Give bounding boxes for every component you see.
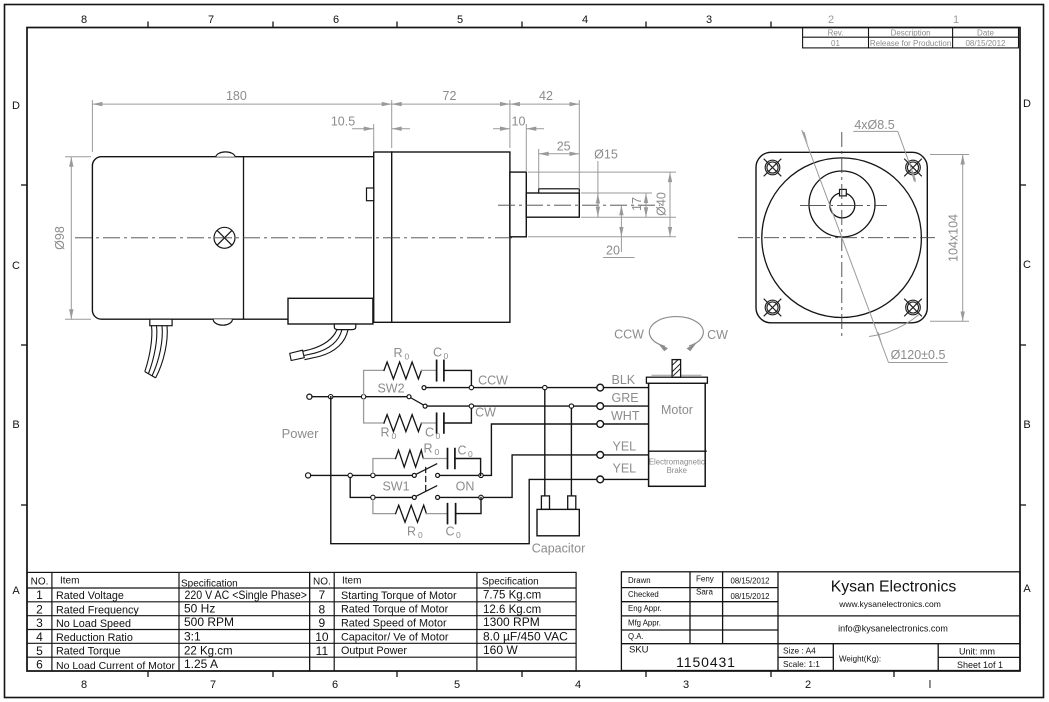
svg-text:Capacitor/ Ve of Motor: Capacitor/ Ve of Motor <box>341 631 449 643</box>
svg-text:Description: Description <box>891 29 931 38</box>
SW1 contact pole1 <box>436 473 440 477</box>
svg-text:6: 6 <box>332 679 338 691</box>
svg-text:42: 42 <box>539 89 553 103</box>
SW1 contact pole2 <box>436 495 440 499</box>
wire: CW line to motor GRE <box>427 405 597 407</box>
rotation arrowhead right <box>687 343 697 351</box>
Ø120 diameter leader line <box>802 130 948 363</box>
wire R0-C0 lower (gray) <box>426 513 447 515</box>
resistor R0 (lower, SW2) <box>384 415 422 432</box>
svg-text:NO.: NO. <box>313 577 331 588</box>
svg-text:2: 2 <box>828 14 834 26</box>
svg-text:CCW: CCW <box>614 328 644 342</box>
cable strands from box <box>290 330 348 361</box>
wire: contact1 to WHT drop <box>440 474 492 476</box>
motor terminal GRE <box>597 403 604 410</box>
label 20 underline <box>603 257 635 259</box>
svg-text:8.0 µF/450 VAC: 8.0 µF/450 VAC <box>483 629 568 643</box>
svg-text:B: B <box>1023 419 1030 431</box>
svg-text:WHT: WHT <box>611 409 640 423</box>
wire: capacitor lead 1 <box>544 390 546 496</box>
svg-text:9: 9 <box>319 616 326 630</box>
horizontal centerline <box>738 237 936 239</box>
node CCW/snubber <box>469 385 473 389</box>
SW1 mechanical link (dashed) <box>425 468 427 493</box>
pilot circle Ø120 <box>762 158 922 318</box>
svg-text:1.25 A: 1.25 A <box>184 657 218 671</box>
dim Ø15 leader <box>597 161 599 217</box>
svg-text:08/15/2012: 08/15/2012 <box>965 39 1006 48</box>
svg-text:0: 0 <box>392 431 397 441</box>
svg-text:Size : A4: Size : A4 <box>783 646 816 656</box>
svg-text:Rated Speed of Motor: Rated Speed of Motor <box>341 618 447 630</box>
svg-text:Ø120±0.5: Ø120±0.5 <box>891 348 946 362</box>
svg-text:C: C <box>445 525 454 539</box>
output shaft (Ø15) <box>526 193 579 217</box>
SW1 pivot pole2 <box>412 495 416 499</box>
main centerline <box>75 237 512 239</box>
svg-text:0: 0 <box>444 351 449 361</box>
shaft centerline short <box>800 204 887 206</box>
resistor R0 (lower, SW1) <box>396 505 427 522</box>
svg-text:160 W: 160 W <box>483 643 518 657</box>
svg-text:Rated Torque: Rated Torque <box>56 646 121 658</box>
vertical centerline <box>841 132 843 340</box>
svg-text:50 Hz: 50 Hz <box>184 602 215 616</box>
svg-text:BLK: BLK <box>612 373 636 387</box>
svg-text:Capacitor: Capacitor <box>532 542 586 556</box>
svg-text:72: 72 <box>443 89 457 103</box>
svg-text:8: 8 <box>319 603 326 617</box>
motor/brake divider <box>649 450 706 452</box>
svg-text:180: 180 <box>226 89 247 103</box>
svg-text:2: 2 <box>36 603 43 617</box>
svg-text:10: 10 <box>315 630 329 644</box>
svg-text:www.kysanelectronics.com: www.kysanelectronics.com <box>838 599 941 609</box>
wire: pole2 feed from J3 <box>350 478 412 498</box>
svg-text:A: A <box>12 585 20 597</box>
SW2 CW contact <box>423 404 427 408</box>
dim 10 extension + arrows <box>525 124 527 172</box>
wire R0 to C0 (gray) <box>422 369 437 371</box>
dim 180 extension lines <box>91 100 93 152</box>
svg-text:Item: Item <box>60 576 79 587</box>
svg-text:l: l <box>929 679 931 691</box>
SW2 pivot <box>407 395 411 399</box>
svg-text:Weight(Kg):: Weight(Kg): <box>839 655 881 664</box>
wires: terminals to motor <box>604 388 649 480</box>
node J6 <box>371 495 375 499</box>
SPECIFICATION TABLE LEFT <box>27 572 310 671</box>
svg-text:Sheet 1of 1: Sheet 1of 1 <box>957 660 1003 670</box>
capacitor C0 (upper, SW2) <box>437 360 444 380</box>
terminal box under body <box>288 298 373 324</box>
svg-text:20: 20 <box>606 244 620 258</box>
svg-text:3: 3 <box>706 14 712 26</box>
SPECIFICATION TABLE RIGHT <box>310 572 576 671</box>
dimension texts <box>53 89 669 258</box>
zone labels bottom <box>81 679 931 691</box>
svg-text:SW1: SW1 <box>382 479 409 493</box>
Ø120 leader arrowheads <box>802 131 808 144</box>
svg-text:4: 4 <box>36 630 43 644</box>
motor terminal BLK <box>597 384 604 391</box>
dim 25 <box>538 149 540 189</box>
svg-text:0: 0 <box>405 352 410 362</box>
svg-text:0: 0 <box>435 447 440 457</box>
svg-text:3: 3 <box>36 616 43 630</box>
svg-text:4: 4 <box>582 14 588 26</box>
svg-text:10.5: 10.5 <box>331 115 355 129</box>
svg-text:3:1: 3:1 <box>184 629 201 643</box>
svg-text:SKU: SKU <box>629 645 649 656</box>
svg-text:Mfg Appr.: Mfg Appr. <box>628 618 661 627</box>
gearbox housing <box>392 152 510 322</box>
power terminal L (top) <box>307 394 312 399</box>
svg-text:CW: CW <box>707 328 728 342</box>
svg-text:CW: CW <box>475 406 496 420</box>
svg-text:Rated Frequency: Rated Frequency <box>56 605 139 617</box>
svg-text:NO.: NO. <box>31 577 49 588</box>
resistor R0 (upper, SW2) <box>384 362 422 379</box>
resistor R0 (upper, SW1) <box>396 450 424 467</box>
TITLE BLOCK <box>621 572 1020 671</box>
dim 17 line <box>645 193 647 217</box>
output boss (Ø40) <box>510 172 526 237</box>
dim line 42 <box>510 103 579 105</box>
small tab on flange <box>367 188 374 201</box>
svg-text:D: D <box>12 100 20 112</box>
wire: capacitor lead 2 <box>570 408 572 496</box>
svg-text:Checked: Checked <box>628 590 659 599</box>
svg-text:0: 0 <box>468 449 473 459</box>
SW1 lever pole1 <box>416 464 437 475</box>
WIRING SCHEMATIC <box>282 317 729 556</box>
capacitor body <box>537 509 579 535</box>
SIDE VIEW of gear motor <box>75 152 660 378</box>
wire: C0 to J7 <box>456 497 481 513</box>
svg-text:Scale: 1:1: Scale: 1:1 <box>783 659 820 669</box>
rotation arrowhead left <box>658 344 668 352</box>
svg-text:104x104: 104x104 <box>946 214 960 262</box>
capacitor C0 (upper, SW1) <box>448 449 455 469</box>
svg-text:Rev.: Rev. <box>828 28 844 37</box>
dim 10.5 extension + arrows <box>373 124 375 152</box>
svg-text:2: 2 <box>805 679 811 691</box>
svg-text:0: 0 <box>436 431 441 441</box>
svg-text:C: C <box>433 346 442 360</box>
svg-text:08/15/2012: 08/15/2012 <box>730 592 769 601</box>
svg-text:No Load Current of Motor: No Load Current of Motor <box>56 660 175 672</box>
node CCW/capacitor <box>543 385 547 389</box>
bottom bump <box>213 319 232 325</box>
wire R0-C0 (gray) <box>423 458 447 460</box>
svg-text:Rated Voltage: Rated Voltage <box>56 590 124 602</box>
svg-text:Kysan Electronics: Kysan Electronics <box>831 579 957 596</box>
wire: contact2 to YEL1 riser <box>440 455 597 498</box>
shaft keyway <box>539 189 580 193</box>
svg-text:220 V AC <Single Phase>: 220 V AC <Single Phase> <box>185 588 308 602</box>
wire: YEL2 return loop <box>331 397 597 544</box>
motor terminal YEL1 <box>597 452 604 459</box>
svg-text:11: 11 <box>316 644 329 658</box>
wire: C0 to CCW line <box>444 370 472 387</box>
svg-text:SW2: SW2 <box>377 381 404 395</box>
104x104 dimension <box>930 155 969 322</box>
svg-text:Q.A.: Q.A. <box>628 632 644 641</box>
svg-text:5: 5 <box>36 644 43 658</box>
dim 17 extension lines <box>581 192 652 194</box>
svg-text:Rated Torque of Motor: Rated Torque of Motor <box>341 604 449 616</box>
svg-text:Specification: Specification <box>482 577 539 588</box>
cable strands left <box>145 326 167 378</box>
cable gland left <box>150 319 172 326</box>
4xØ8.5 label + leader <box>853 131 915 180</box>
svg-text:8: 8 <box>81 14 87 26</box>
bolt hole bottom-left <box>764 299 782 317</box>
svg-text:25: 25 <box>557 140 571 154</box>
bolt hole top-left <box>764 159 782 177</box>
wire: SW1 lower snubber lead (gray) <box>373 500 396 514</box>
bolt circle arc segment <box>869 315 919 337</box>
svg-text:R: R <box>423 442 432 456</box>
svg-text:YEL: YEL <box>613 440 637 454</box>
svg-text:4xØ8.5: 4xØ8.5 <box>854 118 894 132</box>
svg-text:A: A <box>1023 583 1031 595</box>
motor terminal YEL2 <box>597 476 604 483</box>
zone labels right <box>1023 98 1031 595</box>
bolt hole bottom-right <box>904 299 922 317</box>
svg-text:Output Power: Output Power <box>341 645 407 657</box>
SW2 lever <box>411 398 424 405</box>
svg-text:R: R <box>393 346 402 360</box>
svg-text:0: 0 <box>418 530 423 540</box>
svg-text:B: B <box>12 419 19 431</box>
wire: top power rail to SW2 pivot <box>312 396 407 398</box>
capacitor C0 (lower, SW1) <box>448 504 456 524</box>
flange plate <box>374 152 392 322</box>
svg-text:Ø40: Ø40 <box>655 192 669 216</box>
svg-text:7.75 Kg.cm: 7.75 Kg.cm <box>483 590 541 602</box>
svg-text:Ø98: Ø98 <box>53 226 67 250</box>
svg-text:1150431: 1150431 <box>676 654 736 670</box>
FRONT VIEW of motor flange <box>738 118 969 363</box>
svg-text:7: 7 <box>319 588 326 602</box>
svg-text:7: 7 <box>210 679 216 691</box>
shaft circle <box>830 193 855 218</box>
svg-text:8: 8 <box>81 679 87 691</box>
node CW/snubber <box>469 404 473 408</box>
dim Ø40 line <box>669 172 671 237</box>
svg-text:Feny: Feny <box>696 575 714 584</box>
capacitor C0 (lower, SW2) <box>437 413 444 433</box>
motor shaft (hatched) <box>672 359 681 377</box>
node J2 (snubber taps) <box>361 395 365 399</box>
wire: lower snubber lead (gray) <box>364 399 384 423</box>
capacitor terminal 2 <box>568 496 576 510</box>
node J3 <box>348 473 352 477</box>
wire R0 to C0 lower (gray) <box>422 422 437 424</box>
svg-text:R: R <box>380 426 389 440</box>
gearhead boss circle <box>809 171 875 237</box>
svg-text:No Load Speed: No Load Speed <box>56 618 131 630</box>
svg-text:1: 1 <box>953 14 959 26</box>
svg-text:Date: Date <box>977 29 994 38</box>
svg-text:Power: Power <box>282 426 320 441</box>
svg-text:3: 3 <box>683 679 689 691</box>
svg-text:5: 5 <box>457 14 463 26</box>
wire: C0 to CW line <box>444 406 472 423</box>
wire: bottom power rail to SW1 pivot <box>311 474 413 476</box>
node J1 (WHT/YEL2 return tap) <box>329 395 333 399</box>
dim line 180 <box>92 103 391 105</box>
svg-text:D: D <box>1023 98 1031 110</box>
motor body (side view, Ø98 section) <box>92 157 373 320</box>
svg-text:Item: Item <box>342 576 361 587</box>
side view dimensions <box>65 100 676 319</box>
vent plug symbol (circle with cross) <box>214 227 235 248</box>
svg-text:Reduction Ratio: Reduction Ratio <box>56 632 133 644</box>
rotation ellipse <box>649 317 703 347</box>
svg-text:Brake: Brake <box>667 466 687 475</box>
wire: CCW line to motor BLK <box>426 387 597 389</box>
svg-text:500 RPM: 500 RPM <box>184 615 234 629</box>
svg-text:0: 0 <box>456 530 461 540</box>
wire labels BLK GRE WHT YEL YEL <box>611 373 640 476</box>
svg-text:R: R <box>407 525 416 539</box>
svg-text:7: 7 <box>208 14 214 26</box>
svg-text:Motor: Motor <box>661 403 693 417</box>
node CW/capacitor <box>569 404 573 408</box>
dim 20 line <box>620 205 622 237</box>
SW1 pivot pole1 <box>412 473 416 477</box>
svg-text:CCW: CCW <box>478 374 508 388</box>
zone labels left <box>12 100 20 597</box>
svg-text:C: C <box>1023 259 1031 271</box>
svg-text:22 Kg.cm: 22 Kg.cm <box>184 646 233 658</box>
wire: SW1 upper snubber lead (gray) <box>373 459 396 474</box>
motor top plate <box>646 377 707 383</box>
svg-text:C: C <box>12 260 20 272</box>
wire: upper snubber lead (gray) <box>364 370 384 394</box>
svg-text:Eng Appr.: Eng Appr. <box>628 604 662 613</box>
cable gland on terminal box <box>334 324 356 330</box>
svg-text:ON: ON <box>456 479 475 493</box>
shaft centerline <box>498 204 660 206</box>
svg-text:17: 17 <box>630 197 644 211</box>
REVISION TABLE <box>803 28 1019 48</box>
motor terminal WHT <box>597 421 604 428</box>
svg-text:GRE: GRE <box>612 391 639 405</box>
svg-text:YEL: YEL <box>613 462 637 476</box>
svg-text:01: 01 <box>831 39 840 48</box>
SW2 CCW contact <box>422 386 426 390</box>
svg-text:Starting Torque of Motor: Starting Torque of Motor <box>341 590 457 602</box>
zone labels top <box>81 14 959 26</box>
capacitor terminal 1 <box>541 496 549 510</box>
svg-text:C: C <box>425 426 434 440</box>
wire: C0 to J5 <box>455 459 481 476</box>
dim Ø98 <box>65 156 91 158</box>
svg-text:Sara: Sara <box>696 588 713 597</box>
svg-text:6: 6 <box>36 658 43 672</box>
svg-text:6: 6 <box>333 14 339 26</box>
top bump (ring boss) <box>216 152 235 157</box>
node J4 <box>371 473 375 477</box>
svg-text:Unit: mm: Unit: mm <box>959 647 995 657</box>
dim line 72 <box>392 103 510 105</box>
svg-text:4: 4 <box>575 679 581 691</box>
body section divider <box>243 157 245 320</box>
svg-text:1300 RPM: 1300 RPM <box>483 615 540 629</box>
dim Ø40 extension lines <box>528 171 676 173</box>
svg-text:Release for Production: Release for Production <box>870 39 951 48</box>
svg-text:C: C <box>457 444 466 458</box>
wire: WHT line <box>491 424 596 475</box>
SW1 lever pole2 <box>416 486 437 497</box>
motor block <box>649 383 706 486</box>
svg-text:08/15/2012: 08/15/2012 <box>730 577 769 586</box>
key square <box>840 189 847 196</box>
node J5 (snubber) <box>479 473 483 477</box>
bolt hole top-right <box>904 159 922 177</box>
power terminal N (bottom) <box>306 473 311 478</box>
flange square <box>756 152 927 322</box>
svg-text:info@kysanelectronics.com: info@kysanelectronics.com <box>838 624 948 634</box>
node J7 (snubber) <box>479 495 483 499</box>
svg-text:10: 10 <box>512 115 526 129</box>
svg-text:Ø15: Ø15 <box>594 148 618 162</box>
svg-text:1: 1 <box>36 588 43 602</box>
svg-text:Drawn: Drawn <box>628 576 651 585</box>
svg-text:5: 5 <box>454 679 460 691</box>
